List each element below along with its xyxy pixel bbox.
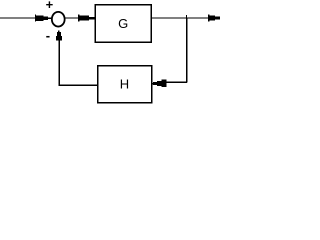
block H [98,66,152,103]
wire: feedback vertical up to summing junction [58,37,60,86]
arrowhead up into summing junction [56,30,62,40]
svg-text:H: H [120,77,129,92]
wire: feedback vertical down [186,18,188,83]
block G [95,5,151,43]
node: takeoff junction tick [186,15,188,18]
arrowhead output [208,15,220,22]
wire: input line [0,17,36,19]
svg-text:G: G [118,16,128,31]
wire: G output line [151,17,209,19]
arrowhead into G [78,15,95,22]
arrowhead into summing junction [35,15,51,22]
wire: summing junction to G [65,17,80,19]
arrowhead into H [152,79,167,87]
wire: H output to feedback corner [59,84,98,86]
svg-text:+: + [46,0,54,12]
svg-text:-: - [46,28,50,43]
wire: feedback horizontal into H [166,81,188,83]
summing junction [52,12,65,27]
